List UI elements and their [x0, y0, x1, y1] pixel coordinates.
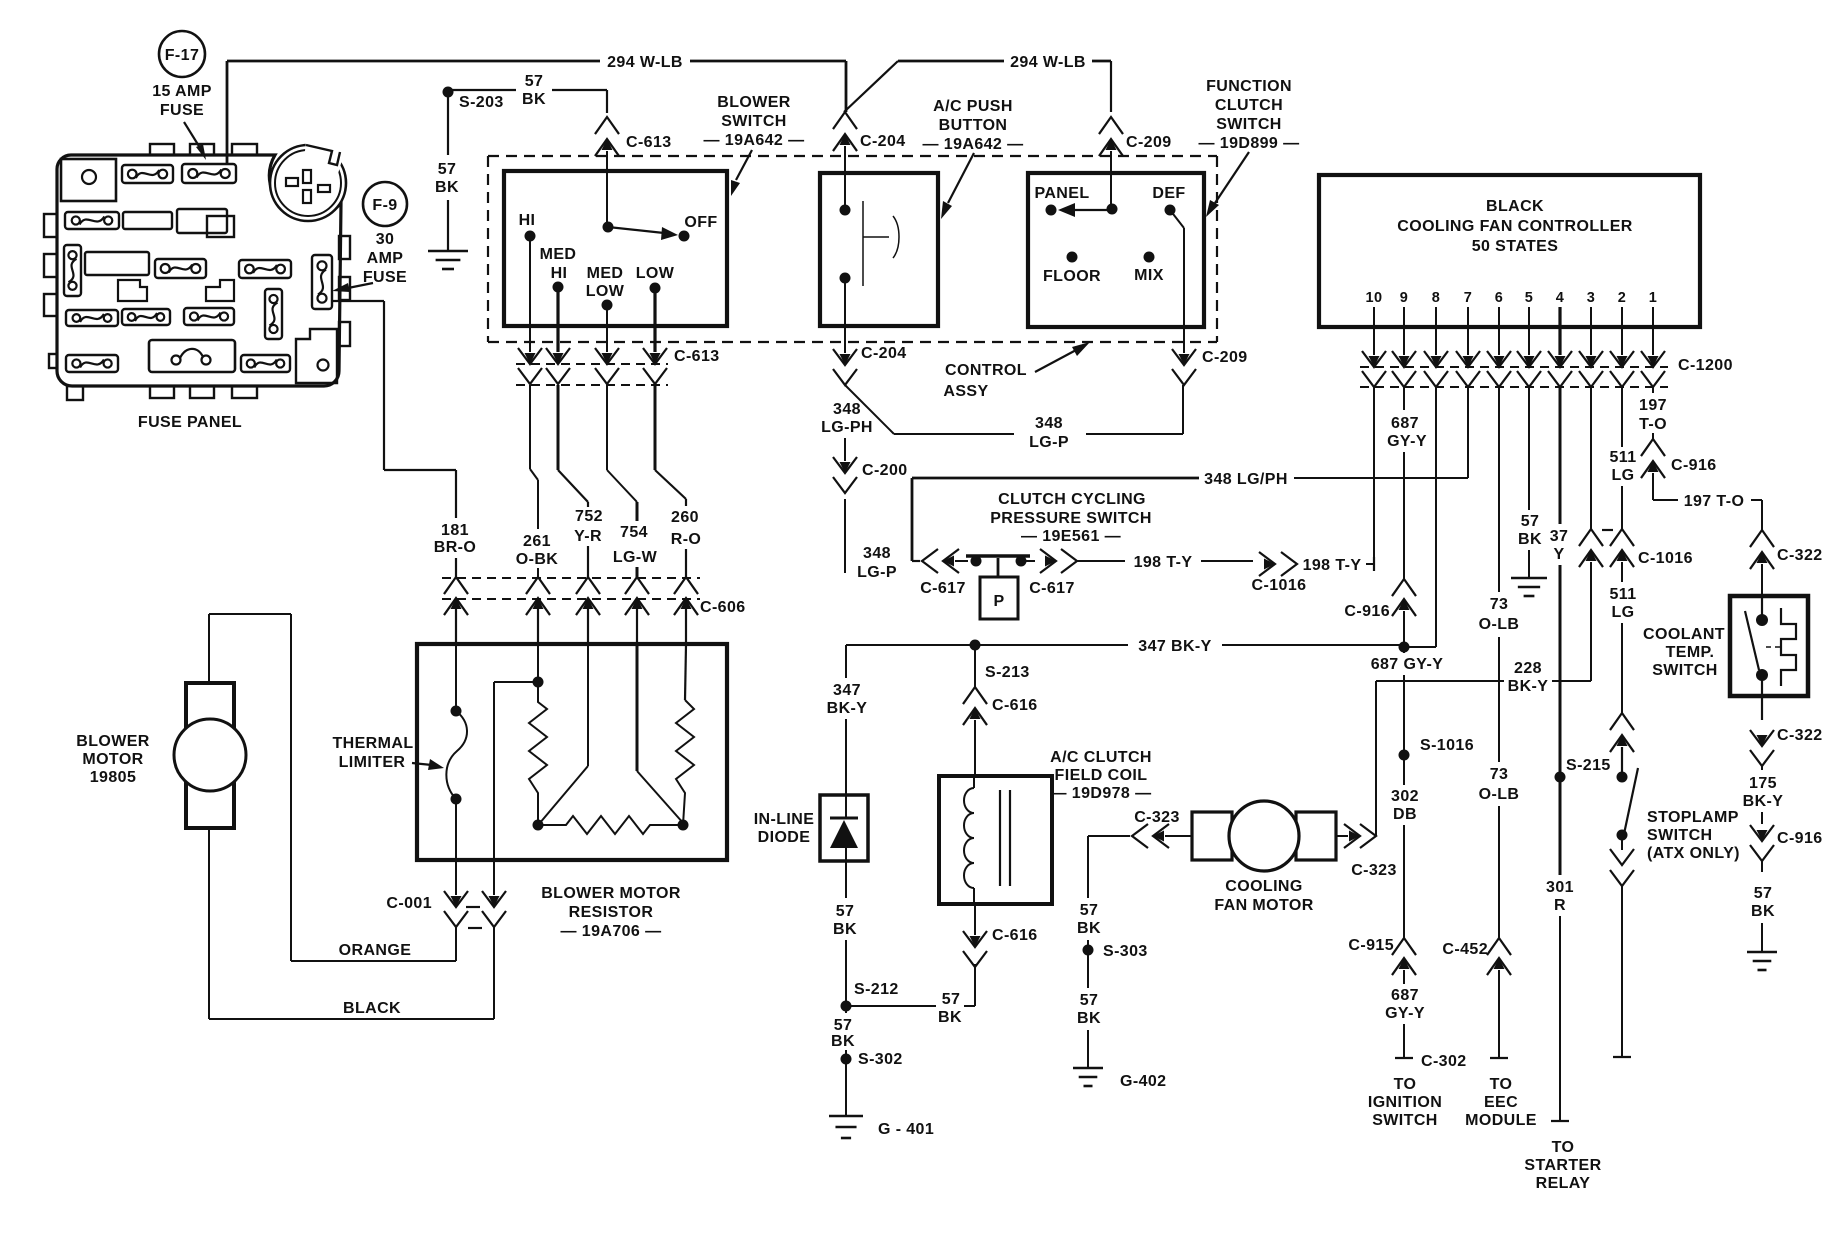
splice S-215: [1555, 772, 1566, 783]
connector C-916 on 687 GY-Y: [1392, 579, 1416, 596]
svg-text:OFF: OFF: [684, 214, 717, 231]
svg-text:687: 687: [1391, 987, 1419, 1004]
svg-text:9: 9: [1400, 290, 1408, 306]
node at 261 O-BK resistor top: [537, 645, 539, 682]
connector C-915: [1392, 938, 1416, 955]
wire 198 T-Y: [1077, 560, 1125, 562]
clutch cycling pressure switch 19E561 contacts: [966, 554, 1030, 558]
svg-text:347: 347: [833, 682, 861, 699]
svg-text:302: 302: [1391, 788, 1419, 805]
svg-text:BLACK: BLACK: [343, 1000, 401, 1017]
svg-text:CLUTCH CYCLING: CLUTCH CYCLING: [998, 491, 1146, 508]
wire 73 O-LB pin 6: [1498, 387, 1500, 592]
svg-text:57: 57: [1080, 992, 1099, 1009]
contact MIX: [1144, 252, 1155, 263]
svg-text:ASSY: ASSY: [943, 383, 988, 400]
svg-text:O-LB: O-LB: [1479, 786, 1520, 803]
fuse: [184, 308, 234, 325]
wire from S-213 to coil connector: [974, 645, 976, 687]
svg-text:5: 5: [1525, 290, 1533, 306]
svg-text:SWITCH: SWITCH: [1647, 827, 1713, 844]
svg-text:C-322: C-322: [1777, 727, 1823, 744]
svg-text:STOPLAMP: STOPLAMP: [1647, 809, 1739, 826]
connector C-204 lower half: [840, 134, 851, 145]
svg-text:57: 57: [525, 73, 544, 90]
blower switch 19A642 body: [504, 171, 727, 326]
svg-text:BK: BK: [831, 1033, 855, 1050]
svg-text:C-204: C-204: [860, 133, 906, 150]
ground G-402: [1073, 1067, 1103, 1070]
contact OFF: [679, 231, 690, 242]
wire 348 LG-P stub: [844, 499, 846, 573]
wire 301 R to starter relay: [1559, 777, 1562, 875]
connector C-916 on 197 T-O: [1641, 439, 1665, 456]
thermal limiter: [455, 645, 457, 711]
svg-text:HI: HI: [519, 212, 536, 229]
svg-text:LG: LG: [1611, 467, 1634, 484]
contact FLOOR: [1067, 252, 1078, 263]
internal wire from C-001 BLACK to node: [493, 682, 495, 862]
svg-text:A/C PUSH: A/C PUSH: [933, 98, 1013, 115]
ground G-401: [829, 1115, 863, 1118]
svg-text:R: R: [1554, 897, 1566, 914]
svg-text:6: 6: [1495, 290, 1503, 306]
splice S-203: [443, 87, 454, 98]
svg-text:73: 73: [1490, 596, 1509, 613]
fuse panel connector circle: [270, 142, 346, 221]
fuse: [155, 259, 206, 278]
fuse panel: [44, 144, 350, 400]
svg-text:198 T-Y: 198 T-Y: [1303, 557, 1362, 574]
svg-text:BK: BK: [435, 179, 459, 196]
svg-text:348: 348: [833, 401, 861, 418]
fuse: [66, 310, 118, 326]
svg-text:SWITCH: SWITCH: [1216, 116, 1282, 133]
svg-text:C-302: C-302: [1421, 1053, 1467, 1070]
field coil winding: [964, 788, 974, 888]
fuse: [66, 355, 118, 372]
svg-text:(ATX ONLY): (ATX ONLY): [1647, 845, 1740, 862]
svg-text:687 GY-Y: 687 GY-Y: [1371, 656, 1444, 673]
connector C-204 upper half: [833, 112, 857, 129]
connector C-916 lower: [1757, 830, 1768, 841]
svg-text:198 T-Y: 198 T-Y: [1134, 554, 1193, 571]
svg-text:PRESSURE SWITCH: PRESSURE SWITCH: [990, 510, 1152, 527]
connector C-323 right: [1336, 835, 1348, 837]
svg-text:C-916: C-916: [1671, 457, 1717, 474]
svg-text:— 19A706 —: — 19A706 —: [561, 923, 662, 940]
in-line diode: [820, 795, 868, 861]
svg-text:— 19E561 —: — 19E561 —: [1021, 528, 1121, 545]
connector C-200: [840, 462, 851, 473]
svg-text:294 W-LB: 294 W-LB: [1010, 54, 1086, 71]
svg-text:BK: BK: [1077, 1010, 1101, 1027]
wire 294 W-LB from fuse panel: [226, 61, 229, 163]
wire HI to C-613: [529, 236, 531, 326]
connector keys: [118, 280, 147, 301]
svg-text:C-1016: C-1016: [1252, 577, 1307, 594]
svg-text:A/C CLUTCH: A/C CLUTCH: [1050, 749, 1152, 766]
svg-text:GY-Y: GY-Y: [1385, 1005, 1425, 1022]
svg-text:C-204: C-204: [861, 345, 907, 362]
leader to 15 amp fuse: [184, 122, 202, 151]
stoplamp switch lower chevrons: [1621, 835, 1623, 850]
svg-text:C-616: C-616: [992, 697, 1038, 714]
field coil core: [999, 790, 1001, 886]
svg-text:STARTER: STARTER: [1524, 1157, 1601, 1174]
svg-text:— 19A642 —: — 19A642 —: [704, 132, 805, 149]
svg-text:— 19D899 —: — 19D899 —: [1199, 135, 1300, 152]
svg-text:50 STATES: 50 STATES: [1472, 238, 1559, 255]
svg-text:S-1016: S-1016: [1420, 737, 1474, 754]
fuse: [122, 309, 170, 325]
svg-text:LIMITER: LIMITER: [339, 754, 406, 771]
connector C-322 lower: [1757, 735, 1768, 746]
connector C-616 lower: [974, 904, 976, 935]
svg-text:511: 511: [1609, 586, 1636, 603]
svg-text:8: 8: [1432, 290, 1440, 306]
blower motor resistor 19A706 body: [417, 644, 727, 860]
fuse F-9 30 amp fuse in panel: [312, 255, 332, 309]
svg-text:S-213: S-213: [985, 664, 1030, 681]
svg-text:260: 260: [671, 509, 699, 526]
svg-text:MODULE: MODULE: [1465, 1112, 1537, 1129]
svg-text:73: 73: [1490, 766, 1509, 783]
splice S-1016: [1399, 750, 1410, 761]
coolant temp switch body: [1730, 596, 1808, 696]
junction 687 GY-Y: [1399, 642, 1410, 653]
svg-text:294 W-LB: 294 W-LB: [607, 54, 683, 71]
svg-text:CLUTCH: CLUTCH: [1215, 97, 1283, 114]
fuse: [122, 165, 173, 183]
wiper contact: [1110, 173, 1112, 209]
empty fuse slot: [123, 212, 172, 229]
svg-text:O-LB: O-LB: [1479, 616, 1520, 633]
splice S-212: [841, 1001, 852, 1012]
svg-text:FUNCTION: FUNCTION: [1206, 78, 1292, 95]
wire 294 W-LB to function clutch switch: [1092, 60, 1111, 63]
svg-text:MED: MED: [540, 246, 577, 263]
svg-text:LG-W: LG-W: [613, 549, 658, 566]
upper contact: [844, 173, 846, 210]
svg-text:DIODE: DIODE: [758, 829, 811, 846]
svg-text:BK: BK: [1518, 531, 1542, 548]
svg-text:37: 37: [1550, 528, 1569, 545]
svg-text:FUSE: FUSE: [160, 102, 204, 119]
svg-text:MED: MED: [587, 265, 624, 282]
svg-text:19805: 19805: [90, 769, 137, 786]
leader arrow to A/C push button: [948, 153, 974, 203]
wire 752 Y-R to resistor junction: [587, 645, 589, 766]
svg-text:C-209: C-209: [1202, 349, 1248, 366]
svg-text:C-322: C-322: [1777, 547, 1823, 564]
svg-text:7: 7: [1464, 290, 1472, 306]
fuse F-17 15 amp fuse in panel: [182, 164, 236, 183]
wire 57 BK to blower switch wiper: [448, 89, 516, 91]
fuse: [239, 260, 291, 278]
vertical fuse: [265, 289, 282, 339]
svg-text:LG-P: LG-P: [1029, 434, 1069, 451]
svg-text:261: 261: [523, 533, 551, 550]
svg-text:BLOWER: BLOWER: [76, 733, 150, 750]
wire pin 8 to junction: [1435, 387, 1437, 647]
svg-text:COOLING FAN CONTROLLER: COOLING FAN CONTROLLER: [1397, 218, 1633, 235]
svg-text:LG-P: LG-P: [857, 564, 897, 581]
connector C-616 upper: [963, 687, 987, 704]
svg-text:DB: DB: [1393, 806, 1417, 823]
svg-text:THERMAL: THERMAL: [332, 735, 413, 752]
svg-text:C-915: C-915: [1348, 937, 1394, 954]
connector C-001 2-way: [455, 862, 457, 895]
svg-text:IGNITION: IGNITION: [1368, 1094, 1442, 1111]
connector C-209 lower inline: [1183, 326, 1185, 353]
connector C-1016 2-way: [1579, 529, 1603, 546]
wire 175 BK-Y: [1761, 766, 1763, 770]
svg-text:GY-Y: GY-Y: [1387, 433, 1427, 450]
svg-text:BK-Y: BK-Y: [1508, 678, 1549, 695]
svg-text:CONTROL: CONTROL: [945, 362, 1027, 379]
connector C-452: [1487, 938, 1511, 955]
svg-text:C-209: C-209: [1126, 134, 1172, 151]
wire to dead end: [1621, 886, 1623, 1056]
svg-text:ORANGE: ORANGE: [339, 942, 412, 959]
stoplamp switch contacts and blade: [1617, 772, 1628, 783]
svg-text:TEMP.: TEMP.: [1666, 644, 1715, 661]
connector C-323 left: [1109, 835, 1130, 837]
resistor element LOW leg: [685, 645, 686, 700]
svg-text:1: 1: [1649, 290, 1657, 306]
cooling fan controller body: [1319, 175, 1700, 327]
wire 57 BK from fan motor to ground: [1088, 835, 1109, 837]
svg-text:57: 57: [836, 903, 855, 920]
wire 687 GY-Y to S-1016: [1403, 647, 1405, 653]
lower contact: [840, 273, 851, 284]
svg-text:BK-Y: BK-Y: [827, 700, 868, 717]
svg-text:RELAY: RELAY: [1536, 1175, 1591, 1192]
connector C-322 upper: [1750, 530, 1774, 547]
wire from lower contact to C-204: [844, 278, 846, 326]
svg-text:TO: TO: [1490, 1076, 1513, 1093]
wire 260 R-O from LOW: [654, 385, 657, 470]
ground: [1747, 951, 1777, 954]
wire 57 BK to ground: [447, 92, 449, 155]
wire MED HI to C-613: [556, 287, 559, 326]
wire 261 O-BK from HI: [529, 385, 531, 469]
connector C-1200 10-way: [1373, 307, 1375, 355]
temperature sensing element: [1781, 608, 1796, 686]
svg-text:C-200: C-200: [862, 462, 908, 479]
wire 348 LG-P pressure switch feed: [911, 478, 914, 561]
svg-text:301: 301: [1546, 879, 1574, 896]
splice S-303: [1083, 945, 1094, 956]
wiper arm arrow to OFF: [608, 227, 664, 233]
wire 57 BK below diode: [845, 861, 847, 898]
svg-text:AMP: AMP: [367, 250, 404, 267]
svg-text:C-613: C-613: [674, 348, 720, 365]
svg-text:S-203: S-203: [459, 94, 504, 111]
wire ORANGE: [455, 927, 457, 961]
connector C-209 upper half: [1099, 117, 1123, 134]
push button actuator: [862, 201, 864, 286]
A/C push button 19A642 body: [820, 173, 938, 326]
stoplamp switch connector: [1610, 713, 1634, 730]
function clutch switch 19D899 body: [1028, 173, 1204, 327]
ground: [1511, 577, 1547, 580]
svg-text:57: 57: [1521, 513, 1540, 530]
svg-text:C-606: C-606: [700, 599, 746, 616]
wire 57 BK to ground G-401: [845, 1006, 847, 1013]
svg-text:G - 401: G - 401: [878, 1121, 934, 1138]
svg-text:Y: Y: [1553, 546, 1564, 563]
vertical fuse: [64, 245, 81, 296]
svg-text:— 19A642 —: — 19A642 —: [923, 136, 1024, 153]
svg-text:— 19D978 —: — 19D978 —: [1051, 785, 1152, 802]
wire 57 BK S-212 to coil: [846, 1005, 936, 1007]
svg-text:197 T-O: 197 T-O: [1684, 493, 1745, 510]
cooling fan motor: [1192, 812, 1232, 860]
svg-text:P: P: [993, 593, 1004, 610]
svg-text:BLOWER: BLOWER: [717, 94, 791, 111]
svg-text:57: 57: [1754, 885, 1773, 902]
svg-text:S-215: S-215: [1566, 757, 1611, 774]
svg-text:RESISTOR: RESISTOR: [569, 904, 654, 921]
wire from thermal limiter to C-001: [455, 799, 457, 895]
svg-text:197: 197: [1639, 397, 1667, 414]
svg-text:LOW: LOW: [586, 283, 625, 300]
wire 754 LG-W to resistor junction: [636, 645, 639, 771]
svg-text:FAN MOTOR: FAN MOTOR: [1214, 897, 1313, 914]
wire from coolant temp switch down: [1761, 675, 1763, 720]
svg-text:BK: BK: [1751, 903, 1775, 920]
svg-text:C-617: C-617: [920, 580, 966, 597]
svg-text:348: 348: [1035, 415, 1063, 432]
svg-text:COOLING: COOLING: [1225, 878, 1302, 895]
connector C-606 5-way: [444, 577, 468, 594]
svg-text:348: 348: [863, 545, 891, 562]
svg-text:BUTTON: BUTTON: [939, 117, 1008, 134]
corner box with mounting hole: [296, 329, 337, 383]
svg-text:15 AMP: 15 AMP: [152, 83, 212, 100]
svg-text:BK: BK: [833, 921, 857, 938]
pressure switch P box: [980, 577, 1018, 619]
svg-text:175: 175: [1749, 775, 1777, 792]
svg-text:347 BK-Y: 347 BK-Y: [1138, 638, 1211, 655]
svg-text:F-9: F-9: [372, 197, 397, 214]
wire LOW to C-613: [653, 288, 656, 326]
svg-text:MIX: MIX: [1134, 267, 1164, 284]
svg-text:C-617: C-617: [1029, 580, 1075, 597]
fuse F-9 callout circle: [363, 182, 407, 226]
connector C-617 right: [1021, 560, 1035, 562]
svg-text:511: 511: [1609, 449, 1636, 466]
svg-text:TO: TO: [1552, 1139, 1575, 1156]
svg-text:2: 2: [1618, 290, 1626, 306]
svg-text:LG-PH: LG-PH: [821, 419, 873, 436]
wire 181 BR-O from 30 amp fuse: [332, 300, 384, 302]
connector C-1016 on 198 T-Y: [1264, 559, 1275, 570]
wire from DEF contact down: [1170, 210, 1184, 228]
coolant temp switch contacts and blade: [1761, 596, 1763, 620]
svg-text:FIELD COIL: FIELD COIL: [1055, 767, 1148, 784]
leader arrow to function clutch switch: [1215, 152, 1249, 203]
svg-text:COOLANT: COOLANT: [1643, 626, 1725, 643]
svg-text:C-916: C-916: [1344, 603, 1390, 620]
connector C-613 upper half: [595, 117, 619, 134]
leader arrow to blower switch: [736, 150, 752, 180]
svg-text:BK: BK: [522, 91, 546, 108]
wire 37 Y pin 4: [1559, 387, 1562, 524]
connector C-209 lower half: [1106, 139, 1117, 150]
fuse F-17 callout circle: [159, 31, 205, 77]
svg-text:S-212: S-212: [854, 981, 899, 998]
wire 348 LG/PH horizontal: [912, 477, 1199, 480]
svg-text:SWITCH: SWITCH: [1652, 662, 1718, 679]
svg-text:228: 228: [1514, 660, 1542, 677]
wire 347 BK-Y: [846, 644, 975, 646]
svg-text:Y-R: Y-R: [574, 528, 602, 545]
svg-text:O-BK: O-BK: [516, 551, 559, 568]
control assy dashed boundary: [488, 155, 1217, 157]
svg-text:BLACK: BLACK: [1486, 198, 1544, 215]
svg-text:BLOWER MOTOR: BLOWER MOTOR: [541, 885, 681, 902]
svg-text:SWITCH: SWITCH: [721, 113, 787, 130]
svg-text:LOW: LOW: [636, 265, 675, 282]
svg-text:IN-LINE: IN-LINE: [754, 811, 815, 828]
svg-text:PANEL: PANEL: [1034, 185, 1089, 202]
junction dots and bottom resistor element: [533, 820, 544, 831]
svg-text:57: 57: [942, 991, 961, 1008]
svg-text:C-916: C-916: [1777, 830, 1823, 847]
svg-text:754: 754: [620, 524, 648, 541]
svg-text:EEC: EEC: [1484, 1094, 1518, 1111]
wire diagonal 294 W-LB to second segment: [844, 61, 898, 112]
wire 198 T-Y pin 10: [1373, 387, 1375, 564]
svg-text:57: 57: [1080, 902, 1099, 919]
svg-text:C-001: C-001: [386, 895, 432, 912]
wire branch down to C-204: [845, 61, 848, 112]
wire BLACK: [493, 927, 495, 1019]
wire 752 Y-R from MED HI: [557, 385, 560, 470]
svg-text:G-402: G-402: [1120, 1073, 1166, 1090]
svg-text:MOTOR: MOTOR: [82, 751, 143, 768]
wire 511 LG pin 3: [1590, 387, 1592, 529]
svg-text:C-323: C-323: [1351, 862, 1397, 879]
connector C-613 lower 4-way: [529, 326, 531, 352]
connector C-617 left: [912, 560, 920, 562]
wire 348 LG-P from C-204 to C-209: [845, 385, 894, 434]
svg-text:181: 181: [441, 522, 469, 539]
wiper arm arrow to PANEL: [1072, 209, 1112, 211]
svg-text:30: 30: [376, 231, 395, 248]
wiper contact: [603, 222, 614, 233]
svg-text:BK-Y: BK-Y: [1743, 793, 1784, 810]
svg-text:LG: LG: [1611, 604, 1634, 621]
wire 511 LG to stoplamp switch: [1621, 566, 1623, 582]
svg-text:57: 57: [834, 1017, 853, 1034]
connector C-204 lower inline: [844, 326, 846, 353]
A/C clutch field coil 19D978 body: [939, 776, 1052, 904]
wire pin 7 to 348 LG/PH: [1467, 387, 1469, 478]
relay: [149, 340, 235, 372]
svg-text:687: 687: [1391, 415, 1419, 432]
svg-text:FUSE PANEL: FUSE PANEL: [138, 414, 242, 431]
wire 302 DB: [1403, 755, 1405, 785]
svg-text:T-O: T-O: [1639, 416, 1667, 433]
svg-text:C-452: C-452: [1442, 941, 1488, 958]
blower motor 19805: [186, 683, 234, 828]
ground: [428, 250, 468, 253]
wire 197 T-O pin 1: [1652, 387, 1654, 393]
